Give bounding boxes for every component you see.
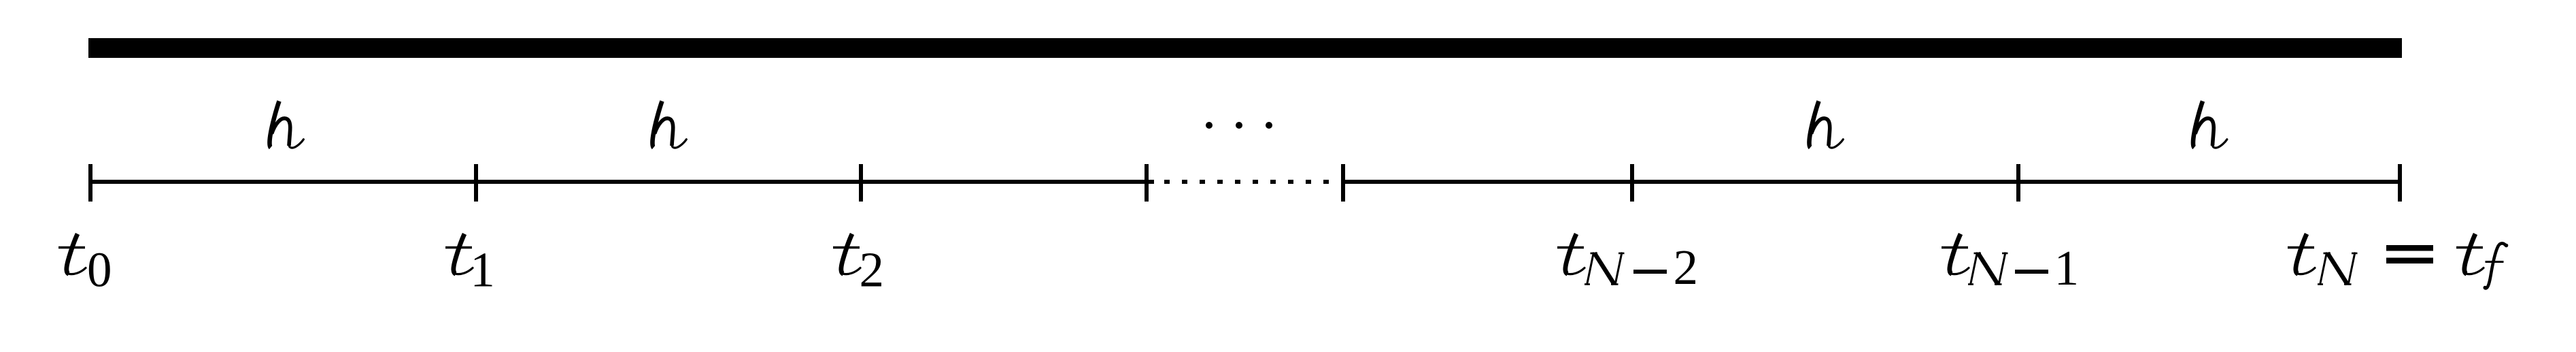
- label t1: [445, 234, 495, 298]
- svg-text:1: 1: [470, 242, 495, 298]
- label tN-1: [1942, 234, 2079, 296]
- label h segment N-1: [1809, 101, 1843, 148]
- wire: dotted axis segment: [1164, 180, 1329, 184]
- svg-text:2: 2: [860, 242, 885, 298]
- tick t2: [859, 164, 863, 202]
- label h segment2: [652, 101, 686, 148]
- cdots ellipsis: [1206, 122, 1272, 129]
- label tN-2: [1557, 234, 1698, 295]
- tick dots-end: [1341, 164, 1345, 202]
- label tN = tf: [2288, 234, 2508, 290]
- label h segment1: [269, 101, 303, 148]
- label h segment N: [2193, 101, 2227, 148]
- wire: axis solid segment right (dots end to tN): [1341, 180, 2402, 184]
- tick tN-2: [1630, 164, 1634, 202]
- label t2: [833, 234, 884, 298]
- tick t0: [88, 164, 92, 202]
- tick tN: [2398, 164, 2402, 202]
- wire: axis solid segment left (t0 to dots start): [88, 180, 1154, 184]
- svg-text:1: 1: [2054, 240, 2080, 295]
- tick t1: [474, 164, 478, 202]
- top thick bar: [88, 38, 2402, 58]
- tick tN-1: [2016, 164, 2020, 202]
- label t0: [58, 234, 112, 298]
- svg-text:0: 0: [87, 242, 112, 298]
- svg-text:2: 2: [1674, 240, 1699, 295]
- tick dots-start: [1145, 164, 1149, 202]
